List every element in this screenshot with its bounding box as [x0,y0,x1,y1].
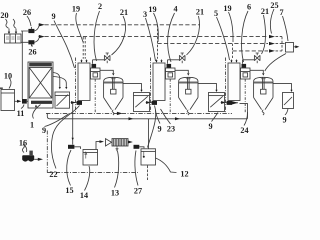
svg-text:11: 11 [17,109,25,118]
svg-text:5: 5 [214,9,218,18]
svg-text:20: 20 [0,11,8,20]
svg-text:22: 22 [49,170,57,179]
svg-text:26: 26 [28,48,36,57]
svg-text:25: 25 [270,1,278,10]
svg-text:7: 7 [279,8,283,17]
svg-text:23: 23 [167,125,175,134]
svg-text:9: 9 [157,125,161,134]
svg-text:10: 10 [4,72,12,81]
svg-text:4: 4 [173,5,177,14]
svg-text:27: 27 [134,187,142,196]
svg-text:21: 21 [120,8,128,17]
svg-text:19: 19 [148,5,156,14]
svg-text:1: 1 [30,121,34,130]
svg-text:19: 19 [72,5,80,14]
svg-text:26: 26 [23,8,31,17]
svg-text:9: 9 [51,12,55,21]
svg-text:9: 9 [42,126,46,135]
svg-text:9: 9 [208,122,212,131]
svg-text:15: 15 [65,186,73,195]
svg-text:19: 19 [223,4,231,13]
svg-text:6: 6 [247,3,251,12]
svg-text:3: 3 [143,10,147,19]
svg-text:16: 16 [19,139,27,148]
svg-text:24: 24 [240,126,248,135]
svg-text:14: 14 [80,191,88,200]
svg-text:21: 21 [261,7,269,16]
svg-text:13: 13 [111,189,119,198]
svg-text:2: 2 [98,2,102,11]
svg-text:9: 9 [282,116,286,125]
svg-text:21: 21 [196,8,204,17]
svg-text:12: 12 [180,170,188,179]
